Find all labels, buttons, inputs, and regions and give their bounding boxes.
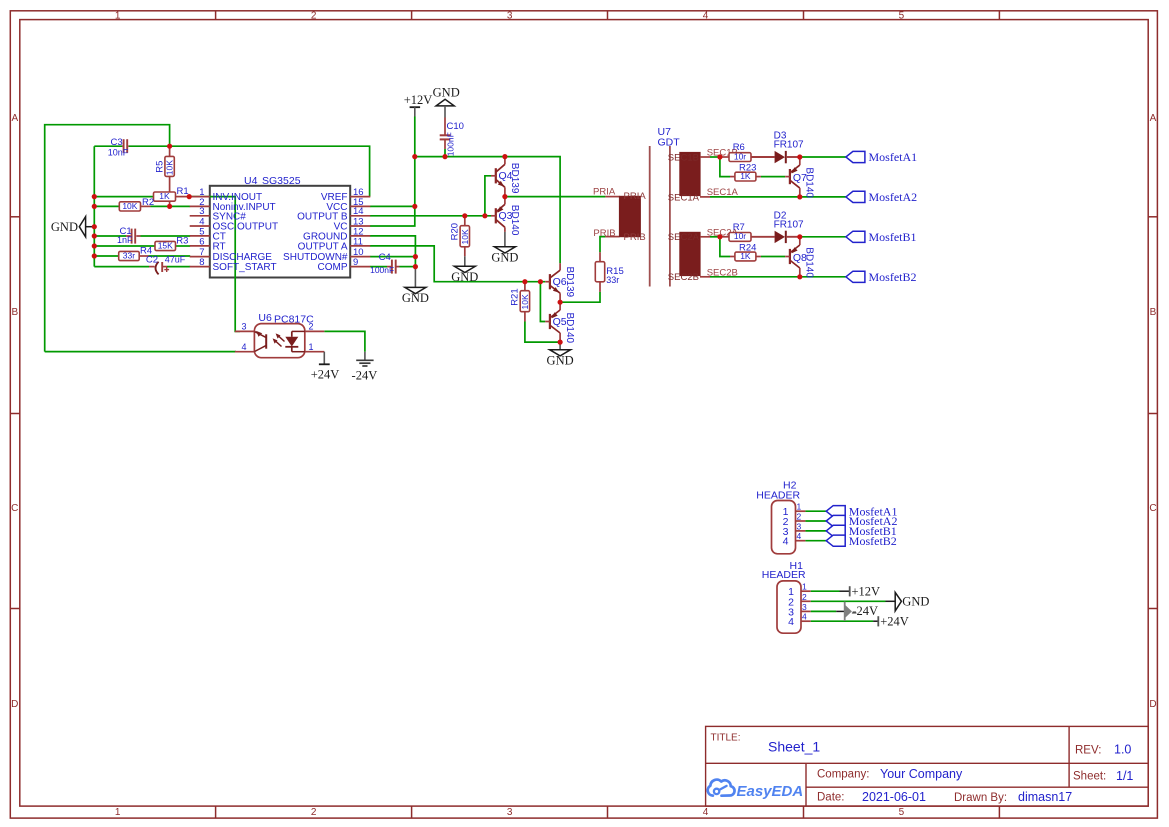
svg-text:C3: C3 <box>111 137 123 148</box>
svg-text:1: 1 <box>115 807 121 818</box>
svg-text:U4: U4 <box>244 175 258 187</box>
svg-text:5: 5 <box>899 807 905 818</box>
svg-text:-24V: -24V <box>352 368 378 382</box>
net port flag MosfetB2 at H2 pin4 <box>826 535 845 546</box>
svg-text:4: 4 <box>703 807 709 818</box>
wire +12V flag drop <box>414 117 416 157</box>
net port flag MosfetB1 at H2 pin3 <box>826 525 845 536</box>
wire R24 branch <box>720 237 730 257</box>
U7 primary pin leads <box>605 196 619 198</box>
wire +12V rail to Q6 collector <box>415 157 560 264</box>
wire VCC row to +12V line <box>370 205 415 207</box>
wire OUTPUT B row to driver bases <box>370 215 491 217</box>
diode D2 FR107 <box>751 236 775 238</box>
U4 pin names <box>213 192 348 273</box>
transistor Q5 BD140 <box>550 302 560 342</box>
svg-text:33r: 33r <box>606 275 619 285</box>
capacitor C3 <box>122 145 123 147</box>
net port flag MosfetA2 at H2 pin2 <box>826 515 845 526</box>
svg-text:+12V: +12V <box>404 93 433 107</box>
svg-text:MosfetA2: MosfetA2 <box>869 190 918 204</box>
wire SHUTDOWN row <box>370 256 416 258</box>
resistor R15 <box>599 252 601 262</box>
transistor Q7 BD140 <box>790 157 800 197</box>
svg-text:BD140: BD140 <box>509 205 520 236</box>
power flag -24V at H1 pin3 <box>836 610 845 612</box>
resistor R7 <box>720 236 729 238</box>
svg-text:4: 4 <box>703 11 709 22</box>
U7 secondary pin leads <box>700 156 710 158</box>
svg-text:SEC2A: SEC2A <box>668 232 700 243</box>
wire pin7 row bus to R4 <box>94 255 118 257</box>
resistor R5 <box>169 146 171 156</box>
svg-text:R24: R24 <box>739 242 756 253</box>
net port flag MosfetB2 <box>846 271 865 282</box>
svg-text:SG3525: SG3525 <box>262 175 301 187</box>
ground flag GND left of bus <box>79 217 85 237</box>
ground flag GND below Q5 collector node <box>559 342 561 350</box>
ground flag GND below Q3 <box>504 232 506 247</box>
svg-text:B: B <box>11 307 18 318</box>
wire header H1 pin3 to -24V <box>811 610 837 612</box>
svg-text:D: D <box>11 699 18 710</box>
ground flag GND below COMP node <box>414 267 416 288</box>
svg-text:R3: R3 <box>176 236 188 247</box>
wire SEC2B row to MosfetB2 <box>710 276 846 278</box>
svg-text:PRIB: PRIB <box>624 232 646 243</box>
svg-text:C10: C10 <box>447 121 464 132</box>
svg-text:2: 2 <box>311 11 317 22</box>
svg-text:Sheet:: Sheet: <box>1073 771 1106 783</box>
U4 left pin leads <box>190 197 210 267</box>
svg-text:PRIA: PRIA <box>593 187 616 198</box>
wire header H1 pin4 to +24V <box>811 620 873 622</box>
transistor Q6 BD139 <box>550 263 560 302</box>
svg-text:COMP: COMP <box>318 262 348 273</box>
resistor R2 <box>141 205 151 207</box>
svg-text:BD140: BD140 <box>803 167 814 198</box>
svg-text:SEC2B: SEC2B <box>707 268 738 279</box>
svg-text:2021-06-01: 2021-06-01 <box>862 790 926 804</box>
svg-text:A: A <box>1150 113 1157 124</box>
ground flag GND at H1 pin2 <box>886 600 896 602</box>
svg-text:5: 5 <box>899 11 905 22</box>
diode D3 FR107 <box>751 156 775 158</box>
svg-text:OUTPUT A: OUTPUT A <box>298 242 348 253</box>
svg-text:R21: R21 <box>510 288 521 305</box>
net port flag MosfetA1 at H2 pin1 <box>826 506 845 517</box>
svg-text:8: 8 <box>199 257 204 268</box>
capacitor C1 <box>126 235 131 237</box>
svg-text:FR107: FR107 <box>774 219 804 230</box>
H2 pin numbers <box>783 506 789 548</box>
wire pin8 row bus to C2 to IC <box>94 266 149 268</box>
wire pin1 row bus to R1 <box>94 196 153 198</box>
svg-text:GND: GND <box>51 220 78 234</box>
svg-text:SEC1A: SEC1A <box>668 192 700 203</box>
svg-text:GND: GND <box>451 270 478 284</box>
svg-text:1K: 1K <box>159 191 170 201</box>
svg-text:33r: 33r <box>123 251 135 261</box>
wire header H1 pin2 to GND <box>811 600 886 602</box>
base lead Q8 <box>785 256 790 258</box>
U7 core lines <box>649 146 651 287</box>
transistor Q3 BD140 <box>496 197 505 232</box>
wire R23 branch <box>720 157 730 177</box>
svg-text:HEADER: HEADER <box>762 569 806 581</box>
wire SEC2A row <box>710 236 721 238</box>
svg-text:GND: GND <box>491 250 518 264</box>
op-amp U4 SG3525 IC body <box>210 186 350 278</box>
svg-text:RT: RT <box>213 242 226 253</box>
wire PRIB to R15 top <box>600 237 605 253</box>
U7 secondary 1 winding <box>680 153 700 196</box>
base lead Q7 <box>785 176 790 178</box>
resistor R4 <box>139 255 148 257</box>
svg-text:R1: R1 <box>177 186 189 197</box>
capacitor C2 polarized <box>149 266 155 268</box>
power flag +24V below opto pin1 <box>323 352 325 365</box>
capacitor C10 <box>444 118 446 136</box>
svg-text:Your Company: Your Company <box>880 767 963 781</box>
wire pin2 row <box>94 205 119 207</box>
svg-text:11: 11 <box>353 236 363 247</box>
svg-text:GND: GND <box>433 86 460 100</box>
ground flag GND below R20 <box>464 256 466 266</box>
svg-text:3: 3 <box>507 11 513 22</box>
resistor R23 <box>730 176 735 178</box>
svg-text:R23: R23 <box>739 162 756 173</box>
svg-text:dimasn17: dimasn17 <box>1018 790 1072 804</box>
wire PRIA from driver A output <box>505 196 606 198</box>
svg-text:+24V: +24V <box>880 614 909 628</box>
svg-text:1: 1 <box>802 582 807 592</box>
svg-text:FR107: FR107 <box>774 140 804 151</box>
svg-text:BD139: BD139 <box>509 163 520 194</box>
svg-text:+24V: +24V <box>311 367 340 381</box>
svg-text:Company:: Company: <box>817 769 869 781</box>
svg-text:-24V: -24V <box>852 604 878 618</box>
svg-text:100nF: 100nF <box>446 132 456 156</box>
wire COMP row to C4 and GND node <box>370 266 387 268</box>
svg-text:R5: R5 <box>154 161 165 173</box>
power flag +12V at H1 pin1 <box>840 590 850 592</box>
svg-text:3: 3 <box>241 322 246 332</box>
wire VC row up to +12V rail <box>370 157 415 226</box>
transformer U7 GDT <box>658 126 681 148</box>
svg-text:GND: GND <box>547 353 574 367</box>
svg-text:PRIB: PRIB <box>593 228 615 239</box>
wire opto pin2 to -24V earth <box>324 331 365 351</box>
transistor Q4 BD139 <box>496 157 505 197</box>
svg-text:1: 1 <box>797 502 802 512</box>
svg-text:MosfetA1: MosfetA1 <box>869 150 918 164</box>
net port flag MosfetA2 <box>846 191 865 202</box>
svg-text:SEC2B: SEC2B <box>668 272 699 283</box>
svg-text:BD140: BD140 <box>564 313 575 344</box>
U4 pin numbers <box>199 187 363 268</box>
svg-text:C4: C4 <box>379 252 391 263</box>
svg-text:A: A <box>11 113 18 124</box>
wire branch down to Q5 base <box>540 282 545 322</box>
wire VREF to C3/R5 node <box>170 146 370 196</box>
svg-text:100nF: 100nF <box>370 265 394 275</box>
opto-coupler U6 PC817C <box>235 312 324 358</box>
base lead Q5 <box>545 321 550 323</box>
svg-text:4: 4 <box>802 612 807 622</box>
wire header H2 pin nets <box>805 510 826 512</box>
svg-text:1: 1 <box>309 342 314 352</box>
svg-text:3: 3 <box>507 807 513 818</box>
connector H2 HEADER <box>756 480 800 554</box>
svg-text:10K: 10K <box>122 201 137 211</box>
resistor R20 <box>464 216 466 226</box>
svg-text:C: C <box>1149 503 1156 514</box>
svg-text:10K: 10K <box>165 160 175 175</box>
svg-text:4: 4 <box>241 342 246 352</box>
svg-text:MosfetB1: MosfetB1 <box>869 230 917 244</box>
svg-text:R20: R20 <box>450 223 461 240</box>
wire branch up to Q4 base <box>485 176 491 216</box>
svg-text:B: B <box>1150 307 1157 318</box>
svg-text:1: 1 <box>115 11 121 22</box>
wire MosfetA1 net <box>800 156 846 158</box>
svg-text:SEC1A: SEC1A <box>707 187 739 198</box>
U4 right pin leads <box>350 197 370 267</box>
wire OUTPUT A row down and over to Q6/Q5 bases <box>370 246 545 282</box>
svg-text:GND: GND <box>402 291 429 305</box>
svg-text:MosfetB2: MosfetB2 <box>869 270 917 284</box>
wire MosfetB1 net <box>800 236 846 238</box>
svg-text:D: D <box>1149 699 1156 710</box>
svg-text:REV:: REV: <box>1075 744 1101 756</box>
wire SEC1A row to MosfetA2 <box>710 196 846 198</box>
base lead Q3 <box>491 215 496 217</box>
svg-text:EasyEDA: EasyEDA <box>737 783 804 800</box>
svg-text:C2: C2 <box>146 255 158 266</box>
svg-text:1.0: 1.0 <box>1114 743 1131 757</box>
power flag +24V at H1 pin4 <box>873 620 878 622</box>
wire SEC1B row <box>710 156 721 158</box>
svg-text:3: 3 <box>802 602 807 612</box>
resistor R24 <box>730 256 735 258</box>
resistor R21 <box>524 282 526 291</box>
svg-text:SOFT_START: SOFT_START <box>213 262 277 273</box>
wire R21 bottom to Q5 collector node <box>525 322 560 343</box>
wire R15 bottom to driver B output node <box>560 292 600 302</box>
svg-text:47uF: 47uF <box>165 255 186 265</box>
svg-text:R6: R6 <box>733 142 745 153</box>
junction dots <box>92 144 803 345</box>
svg-text:TITLE:: TITLE: <box>711 733 741 744</box>
H1 pin leads <box>801 591 811 621</box>
svg-text:4: 4 <box>797 531 802 541</box>
svg-text:10K: 10K <box>460 229 470 244</box>
U7 secondary 2 winding <box>680 232 700 275</box>
H2 pin leads <box>796 511 806 541</box>
resistor R6 <box>720 156 729 158</box>
svg-text:Drawn By:: Drawn By: <box>954 792 1007 804</box>
wire pin5 row bus to C1 to IC <box>94 235 126 237</box>
wire C3 row <box>94 145 122 147</box>
svg-text:1/1: 1/1 <box>1116 769 1133 783</box>
svg-text:4: 4 <box>788 616 794 628</box>
svg-text:U6: U6 <box>258 312 272 324</box>
svg-text:15K: 15K <box>158 241 173 251</box>
H1 pin numbers <box>788 586 794 628</box>
svg-text:9: 9 <box>353 257 358 268</box>
svg-text:C: C <box>11 503 18 514</box>
wire ground bus vertical <box>93 146 95 266</box>
resistor R1 <box>176 196 190 198</box>
svg-text:GND: GND <box>902 595 929 609</box>
wire pin6 row bus to R3 <box>94 245 155 247</box>
svg-text:1nF: 1nF <box>117 235 133 245</box>
svg-text:+12V: +12V <box>852 584 881 598</box>
net port flag MosfetB1 <box>846 231 865 242</box>
U7 primary winding <box>620 196 641 236</box>
svg-text:SEC1B: SEC1B <box>668 152 699 163</box>
title block <box>706 726 1149 806</box>
svg-text:Sheet_1: Sheet_1 <box>768 739 820 755</box>
svg-text:PRIA: PRIA <box>624 191 647 202</box>
base lead Q4 <box>491 175 496 177</box>
wire GND node vertical pin10 to pin9 <box>414 257 416 267</box>
wire header H1 pin1 to +12V <box>811 590 840 592</box>
svg-text:MosfetB2: MosfetB2 <box>849 534 897 548</box>
wire pin1 node through IC down to opto pin3 <box>189 197 240 332</box>
svg-text:2: 2 <box>311 807 317 818</box>
svg-text:GDT: GDT <box>658 137 681 149</box>
svg-text:Date:: Date: <box>817 791 845 803</box>
connector H1 HEADER <box>762 560 806 633</box>
capacitor C4 <box>387 266 391 268</box>
svg-text:6: 6 <box>199 236 204 247</box>
resistor R3 <box>155 241 176 250</box>
transistor Q8 BD140 <box>790 237 800 277</box>
base lead Q6 <box>545 281 550 283</box>
power flag -24V earth below opto pin2 <box>364 352 366 361</box>
svg-text:10K: 10K <box>520 294 530 309</box>
net port flag MosfetA1 <box>846 151 865 162</box>
svg-text:R2: R2 <box>142 197 154 208</box>
wire top-left loop from C3/R5 node to opto pin4 <box>45 125 170 352</box>
svg-text:2: 2 <box>802 592 807 602</box>
svg-text:R7: R7 <box>733 222 745 233</box>
EasyEDA logo <box>708 780 735 796</box>
svg-text:BD139: BD139 <box>564 267 575 298</box>
svg-text:4: 4 <box>783 536 789 548</box>
svg-text:2: 2 <box>797 512 802 522</box>
wire C10 bottom to rail <box>444 149 446 157</box>
wire bottom loop to opto pin4 <box>45 351 236 353</box>
svg-text:2: 2 <box>309 322 314 332</box>
svg-text:3: 3 <box>797 521 802 531</box>
wire GROUND row down to SHUTDOWN row <box>370 236 416 257</box>
svg-text:BD140: BD140 <box>803 247 814 278</box>
svg-text:10nF: 10nF <box>108 147 129 157</box>
